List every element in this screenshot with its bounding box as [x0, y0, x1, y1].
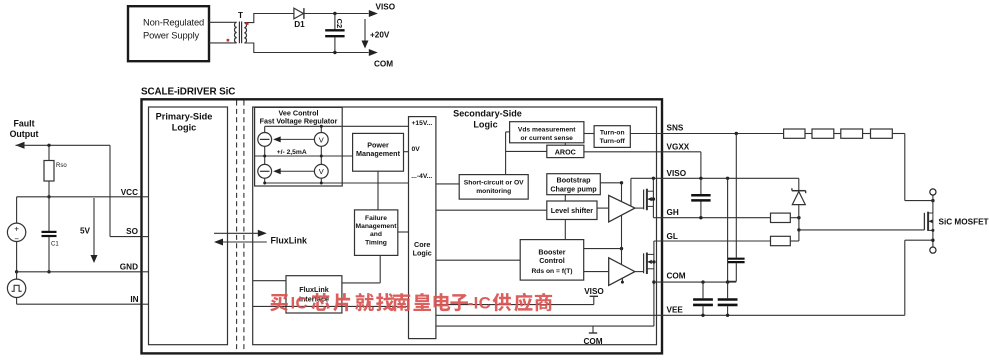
arrow to I1: [277, 138, 314, 140]
wire level shifter to booster control: [564, 220, 566, 240]
svg-text:SNS: SNS: [667, 124, 684, 133]
resistor Rso: [48, 145, 50, 160]
voltmeter V2: [314, 164, 328, 178]
diode D1: [294, 8, 304, 19]
red watermark text: [270, 293, 552, 312]
wire driver1 bottom to driver2 top: [621, 215, 623, 264]
FluxLink arrow left: [223, 241, 267, 243]
svg-text:Power Supply: Power Supply: [143, 30, 200, 41]
node - Rso top: [47, 144, 50, 147]
wire driver2 bottom to COM: [621, 278, 623, 283]
wire source riser: [932, 230, 934, 247]
svg-text:-IC: -IC: [468, 293, 491, 312]
wire driver 2 output to FET: [635, 271, 644, 273]
svg-text:C1: C1: [51, 242, 59, 248]
svg-text:Management: Management: [356, 149, 401, 158]
svg-text:+20V: +20V: [370, 31, 390, 40]
wire core logic to short-circuit box: [436, 183, 459, 185]
wire fluxlink interface to failure mgmt: [342, 282, 380, 284]
svg-text:Vds measurement: Vds measurement: [518, 127, 576, 134]
turn-on turn-off box: [594, 126, 630, 148]
svg-text:and: and: [370, 231, 382, 238]
wire COM ground rail: [436, 325, 654, 327]
arrow 5V down: [93, 198, 95, 259]
resistor gate GL: [771, 236, 791, 245]
svg-text:+: +: [14, 224, 19, 233]
capacitor COM-VEE 2: [727, 282, 729, 298]
svg-text:VGXX: VGXX: [667, 142, 690, 151]
svg-text:T: T: [238, 11, 243, 20]
svg-text:Primary-Side: Primary-Side: [156, 112, 213, 122]
wire VGXX (AROC to pin): [584, 151, 701, 153]
output FET 1: [643, 190, 645, 210]
wire SO: [110, 236, 142, 238]
wire - secondary top to VISO rail: [247, 14, 294, 23]
svg-text:GL: GL: [667, 232, 678, 241]
node top V meter: [320, 125, 323, 128]
isolation barrier dashed line 1: [236, 101, 238, 353]
wire GH line: [653, 217, 770, 219]
node cap on GH: [699, 216, 702, 219]
wire level shifter to driver 1 input: [597, 207, 609, 209]
wire GH resistor to gate node: [790, 217, 799, 219]
svg-text:Level shifter: Level shifter: [551, 206, 594, 215]
driver amplifier 1 (GH): [609, 195, 635, 222]
svg-text:Rso: Rso: [56, 163, 67, 169]
node SNS on drain: [931, 199, 934, 202]
secondary-side region box: [253, 107, 657, 345]
svg-text:Secondary-Side: Secondary-Side: [453, 108, 522, 118]
svg-text:VISO: VISO: [667, 169, 687, 178]
capacitor VISO-GH (bootstrap): [700, 178, 702, 194]
wire COM pin line: [654, 281, 736, 283]
svg-text:VEE: VEE: [667, 306, 684, 315]
wire booster to driver 2 input: [584, 271, 609, 273]
pin stub IN: [142, 303, 149, 305]
svg-text:Control: Control: [539, 256, 565, 265]
pin stub SO: [142, 236, 149, 238]
wire mid rail (0V to power management): [264, 146, 266, 164]
wire - supply to transformer primary top: [209, 21, 234, 23]
node VGXX/VISO: [699, 177, 702, 180]
wire bootstrap to level shifter: [564, 195, 566, 201]
level shifter box: [547, 201, 597, 220]
phase dot secondary (red): [246, 22, 249, 25]
svg-text:monitoring: monitoring: [476, 188, 511, 195]
node cap2 on VEE: [726, 314, 729, 317]
VISO terminal arrow: [369, 10, 378, 17]
svg-text:Management: Management: [356, 223, 398, 230]
zener diode (gate clamp): [792, 190, 806, 192]
node - C2 top junction: [333, 12, 336, 15]
arrow to I2: [277, 170, 314, 172]
svg-text:Fast Voltage Regulator: Fast Voltage Regulator: [260, 117, 338, 126]
svg-text:C2: C2: [335, 19, 344, 29]
SiC MOSFET: [923, 213, 925, 230]
svg-text:D1: D1: [294, 20, 305, 29]
wire VGXX down to VISO node: [700, 152, 702, 179]
node VISO decoupling branch: [726, 177, 729, 180]
wire GND: [17, 271, 142, 273]
wire driver 1 output to FET: [635, 207, 644, 209]
node VISO branch on COM: [726, 280, 729, 283]
bootstrap charge pump box: [547, 174, 601, 195]
node gate join: [797, 228, 800, 231]
resistor R SNS 2: [812, 129, 834, 138]
wire FET1 riser to GH: [652, 178, 654, 217]
capacitor C1: [48, 197, 50, 231]
svg-text:or current sense: or current sense: [520, 135, 573, 142]
node - GND/C1 junction: [47, 270, 50, 273]
failure management and timing box: [355, 210, 398, 256]
wire +15V rail (to core logic): [265, 125, 409, 127]
wire VISO rail: [631, 177, 799, 179]
svg-text:Timing: Timing: [365, 239, 387, 246]
capacitor COM-VEE 1: [702, 282, 704, 298]
node mid left: [263, 155, 266, 158]
node cap1 on VEE: [701, 314, 704, 317]
Vee Control / Fast Voltage Regulator box: [255, 107, 343, 186]
fluxlink interface box: [286, 276, 342, 313]
svg-text:COM: COM: [583, 337, 602, 346]
svg-text:IN: IN: [130, 295, 138, 304]
voltage source 5V: [7, 223, 25, 241]
isolation barrier dashed line 2: [243, 101, 245, 353]
wire vds to AROC: [564, 143, 566, 145]
wire SNS chain to MOSFET drain: [892, 133, 905, 135]
driver amplifier 2 (GL): [609, 258, 635, 286]
power management box: [353, 133, 404, 171]
svg-text:COM: COM: [667, 271, 686, 280]
wire barrier to fluxlink interface (top): [253, 280, 286, 282]
wire booster to driver rail: [584, 248, 622, 250]
svg-text:COM: COM: [374, 60, 393, 69]
wire power mgmt to failure mgmt: [377, 171, 379, 210]
wire power mgmt to core (0V): [404, 151, 409, 153]
node bottom right: [320, 182, 323, 185]
COM terminal arrow: [369, 49, 378, 56]
svg-text:Logic: Logic: [473, 119, 497, 129]
wire VISO reference stub: [436, 304, 594, 306]
voltmeter V1: [314, 133, 328, 147]
svg-text:Charge pump: Charge pump: [550, 185, 597, 194]
node FET1 drain on VISO: [652, 177, 655, 180]
svg-text:Logic: Logic: [413, 249, 432, 258]
resistor R SNS 1: [784, 129, 805, 138]
phase dot primary (red): [227, 39, 230, 42]
svg-text:+15V...: +15V...: [412, 120, 433, 127]
svg-text:+/- 2,5mA: +/- 2,5mA: [277, 149, 307, 156]
node - Rso/VCC junction: [47, 195, 50, 198]
svg-text:VISO: VISO: [584, 287, 604, 296]
svg-text:AROC: AROC: [555, 147, 576, 156]
svg-text:SO: SO: [126, 227, 138, 236]
wire -4V rail (to core logic): [264, 178, 266, 183]
svg-text:IC: IC: [291, 293, 308, 312]
power supply box: [128, 6, 209, 61]
wire short-circuit riser to vds: [505, 132, 507, 175]
FluxLink arrow right: [214, 232, 258, 234]
node bottom left: [263, 182, 266, 185]
wire VISO to driver 1 supply: [630, 178, 632, 206]
short-circuit or OV monitoring box: [459, 175, 528, 200]
pin stub VCC: [142, 196, 149, 198]
wire core logic to booster control: [436, 259, 520, 261]
svg-text:Turn-off: Turn-off: [600, 138, 626, 145]
wire drain riser: [932, 195, 934, 213]
svg-text:Failure: Failure: [365, 215, 387, 222]
svg-text:GH: GH: [667, 208, 679, 217]
wire VCC: [17, 196, 142, 198]
capacitor SNS branch: [735, 134, 737, 258]
svg-text:5V: 5V: [80, 227, 91, 236]
svg-text:FluxLink: FluxLink: [271, 236, 308, 246]
node - C2 bottom junction: [333, 51, 336, 54]
main chip box: [142, 99, 663, 353]
svg-text:Bootstrap: Bootstrap: [557, 176, 592, 185]
transformer T: [234, 22, 248, 44]
resistor gate GH: [771, 213, 791, 222]
node source lead: [931, 229, 934, 232]
node gate top: [797, 216, 800, 219]
svg-text:VCC: VCC: [121, 188, 138, 197]
svg-text:GND: GND: [120, 262, 138, 271]
svg-text:Non-Regulated: Non-Regulated: [143, 17, 204, 28]
node mid right: [320, 155, 323, 158]
wire barrier through fluxlink interface to core logic: [253, 305, 409, 307]
+20V arrow: [364, 19, 366, 44]
wire GL line: [654, 240, 771, 242]
svg-text:VISO: VISO: [376, 2, 396, 11]
node VEE on source: [931, 239, 934, 242]
svg-text:Short-circuit or OV: Short-circuit or OV: [464, 179, 524, 186]
current source I1: [258, 133, 272, 147]
svg-text:Fault: Fault: [13, 119, 34, 129]
wire - secondary bottom to COM rail: [247, 43, 368, 53]
wire FET2 riser (GL to COM rail): [653, 241, 655, 326]
AROC box: [547, 145, 584, 157]
node on COM line left: [701, 280, 704, 283]
svg-text:0V: 0V: [412, 146, 421, 153]
wire vds to turn-on: [584, 133, 594, 135]
capacitor C2: [334, 14, 336, 30]
wire - D1 cathode to VISO arrow: [304, 13, 369, 15]
wire GL resistor to gate node: [790, 240, 799, 242]
wire between R2-R3: [834, 133, 841, 135]
pulse source (IN): [7, 279, 25, 297]
wire gate line to SiC MOSFET: [799, 229, 925, 231]
wire bootstrap to driver 1 top: [600, 182, 621, 184]
COM ground symbol: [592, 326, 594, 332]
current source I2: [258, 164, 272, 178]
vds measurement box: [510, 122, 584, 143]
wire VISO branch down to COM: [727, 178, 729, 282]
wire gate node down: [798, 218, 800, 230]
svg-text:Turn-on: Turn-on: [600, 129, 625, 136]
wire SNS (turn-off box to pin and resistors): [630, 133, 783, 135]
node SNS branch: [735, 132, 738, 135]
wire - fault line down to SO: [109, 145, 111, 236]
booster control box: [520, 240, 584, 281]
drain terminal: [930, 189, 936, 195]
svg-text:Output: Output: [10, 129, 39, 139]
primary-side logic box: [149, 107, 228, 345]
wire AROC input: [506, 150, 547, 152]
resistor R SNS 4: [871, 129, 893, 138]
fault output arrow: [16, 142, 25, 149]
source terminal: [930, 247, 936, 253]
wire - supply to transformer primary bottom: [209, 42, 234, 44]
svg-text:SCALE-iDRIVER SiC: SCALE-iDRIVER SiC: [141, 87, 235, 98]
wire VEE riser to MOSFET source: [904, 240, 906, 315]
resistor R SNS 3: [841, 129, 863, 138]
svg-text:...-4V...: ...-4V...: [411, 173, 432, 180]
wire IN: [17, 303, 142, 305]
wire between R1-R2: [805, 133, 812, 135]
core logic box: [409, 117, 436, 339]
wire failure mgmt to core logic: [398, 231, 409, 233]
svg-text:Rds on = f(T): Rds on = f(T): [531, 268, 572, 275]
wire core logic to level shifter: [436, 209, 547, 211]
svg-text:SiC MOSFET: SiC MOSFET: [939, 217, 989, 226]
wire between R3-R4: [863, 133, 871, 135]
wire VEE rail: [436, 314, 905, 316]
svg-text:V: V: [319, 167, 324, 176]
node FET2 on COM: [652, 280, 655, 283]
wire VISO corner down to zener: [798, 178, 800, 190]
output FET 2: [643, 253, 645, 273]
svg-text:V: V: [319, 135, 324, 144]
pin stub GND: [142, 271, 149, 273]
node - GND left junction: [15, 270, 18, 273]
svg-text:Logic: Logic: [172, 122, 197, 132]
